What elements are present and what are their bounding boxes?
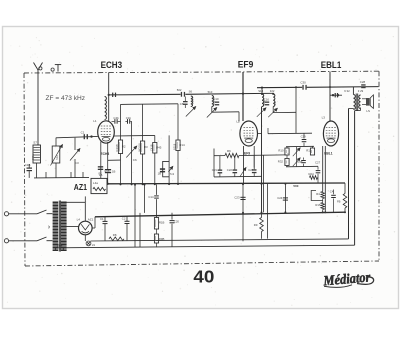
svg-text:B41: B41 xyxy=(262,99,266,104)
svg-text:R9B: R9B xyxy=(159,237,165,241)
capacitor C35 xyxy=(303,158,305,160)
capacitor C16 xyxy=(265,102,270,103)
output transformer primary xyxy=(353,95,355,110)
AZ1 cathode wire xyxy=(92,227,95,229)
svg-text:R10: R10 xyxy=(278,149,284,153)
svg-text:ECH3: ECH3 xyxy=(101,60,123,70)
wire S13 top to plate rail xyxy=(261,88,263,94)
svg-text:C29: C29 xyxy=(301,134,307,138)
core arrow 322 xyxy=(268,108,277,117)
svg-text:C21: C21 xyxy=(212,168,218,172)
wire ground rail left xyxy=(34,176,89,179)
svg-text:BE1N: BE1N xyxy=(191,97,195,104)
svg-text:R18: R18 xyxy=(105,169,110,173)
capacitor C1 series xyxy=(84,134,85,139)
svg-text:C24: C24 xyxy=(248,168,254,172)
svg-text:C14: C14 xyxy=(148,195,154,199)
Mediator logo xyxy=(322,270,372,289)
svg-text:L3: L3 xyxy=(322,116,326,120)
svg-text:1B: 1B xyxy=(158,172,161,176)
return wire right B xyxy=(354,111,356,246)
column x267 xyxy=(267,184,269,239)
power transformer core xyxy=(58,201,60,252)
resistor R10 xyxy=(286,147,288,148)
svg-text:C1b: C1b xyxy=(126,116,132,120)
power transformer primary winding xyxy=(53,202,59,252)
capacitor C22 xyxy=(234,156,236,170)
wire AVC drop xyxy=(295,87,297,133)
power transformer secondary winding xyxy=(61,202,67,252)
svg-text:C1: C1 xyxy=(81,130,85,134)
wire AZ1 to lamp xyxy=(84,235,86,241)
wire EF9 right lead xyxy=(253,146,255,168)
capacitor C4 cathode xyxy=(333,190,335,195)
capacitor C18 under tube xyxy=(100,142,102,185)
small series cap near coil xyxy=(112,93,113,97)
svg-text:C35: C35 xyxy=(297,160,303,164)
svg-text:EF9: EF9 xyxy=(244,151,250,155)
network rail bottom xyxy=(286,165,318,168)
svg-text:LS: LS xyxy=(366,109,370,113)
column x144 xyxy=(144,185,146,213)
svg-text:502: 502 xyxy=(177,88,182,92)
chassis dash-dot border left xyxy=(24,73,25,266)
svg-text:C4b: C4b xyxy=(113,116,119,120)
output transformer core xyxy=(355,94,357,111)
IF coil S10 xyxy=(212,96,214,107)
svg-text:(C208): (C208) xyxy=(115,144,119,152)
svg-text:C20: C20 xyxy=(174,220,180,224)
IF coil S13 xyxy=(262,94,264,107)
svg-text:AZ1: AZ1 xyxy=(74,183,88,192)
wire cathode R6 xyxy=(243,146,245,184)
svg-text:R4: R4 xyxy=(316,192,320,196)
oscillator coil L1 xyxy=(105,97,107,120)
grid rail y133 xyxy=(268,132,312,135)
tube ECH3 xyxy=(98,121,115,143)
svg-text:L4a: L4a xyxy=(93,181,98,185)
column x135 xyxy=(134,185,136,248)
switch upper xyxy=(37,210,47,214)
svg-text:R45: R45 xyxy=(156,146,162,150)
coil S7 xyxy=(33,145,41,163)
wire EBL1 plate from border xyxy=(329,72,331,88)
svg-text:L2: L2 xyxy=(236,120,240,124)
bracket cathode xyxy=(311,191,322,201)
capacitor C14 xyxy=(154,195,159,197)
column C24b xyxy=(284,184,286,213)
svg-text:C1: C1 xyxy=(100,217,104,221)
earth terminal xyxy=(51,68,54,71)
wire EBL1 plate to transformer xyxy=(330,94,342,96)
wire from border to coil xyxy=(108,72,110,95)
svg-text:C41B: C41B xyxy=(150,144,154,151)
column R45 xyxy=(154,136,156,143)
ground bus y212 xyxy=(95,212,345,217)
column R14 xyxy=(177,104,179,140)
variable arrows network xyxy=(296,147,298,167)
capacitor C10 xyxy=(215,102,220,103)
svg-text:C2: C2 xyxy=(122,217,126,221)
return wire right A xyxy=(348,109,350,239)
svg-text:C6: C6 xyxy=(133,158,137,162)
speaker xyxy=(366,98,370,106)
capacitor C1b xyxy=(127,119,129,124)
svg-text:L4: L4 xyxy=(77,217,81,221)
capacitor C4b xyxy=(114,119,116,124)
chassis dash-dot border right xyxy=(378,71,380,261)
core arrow S13 xyxy=(257,108,266,117)
svg-text:R9: R9 xyxy=(254,223,258,227)
svg-text:B2: B2 xyxy=(273,101,277,105)
tuning coil S1A with arrow xyxy=(52,146,60,163)
wire y135 ECH3 xyxy=(114,134,155,137)
screen feed vertical double xyxy=(261,107,263,213)
core arrow S6 xyxy=(186,107,196,117)
B+ bus y183 xyxy=(107,182,345,185)
svg-text:E84: E84 xyxy=(57,243,62,247)
paper speckle xyxy=(132,70,133,71)
mains terminal lower xyxy=(4,239,8,243)
svg-text:C3: C3 xyxy=(75,161,79,165)
filter capacitor C2 xyxy=(126,216,128,221)
network rail top xyxy=(286,145,314,147)
tube AZ1 xyxy=(79,221,93,235)
wire plate EF9 xyxy=(257,133,262,135)
svg-text:R15: R15 xyxy=(315,203,321,207)
junction grid xyxy=(90,135,92,137)
wire top cap EF9 xyxy=(242,72,244,121)
capacitor C8 xyxy=(183,101,188,102)
IF coil S6 xyxy=(191,96,193,107)
transformer tap HV xyxy=(66,201,86,203)
cap row wire xyxy=(214,175,262,178)
dial lamp L9 xyxy=(86,241,91,246)
mains wire upper xyxy=(9,213,37,215)
core arrow S10 xyxy=(207,108,217,118)
wire return primary xyxy=(349,108,354,110)
wire antenna down xyxy=(37,70,39,145)
svg-text:6 32: 6 32 xyxy=(344,89,350,93)
svg-text:510: 510 xyxy=(208,90,213,94)
zigzag R8 xyxy=(109,237,124,241)
column R3 xyxy=(142,104,144,141)
transformer tap filament xyxy=(66,226,79,228)
capacitor C27 xyxy=(317,166,319,169)
svg-text:B41L: B41L xyxy=(31,153,35,160)
EBL1 cathode double wires xyxy=(322,146,324,192)
svg-text:S7: S7 xyxy=(33,141,37,145)
svg-text:R8: R8 xyxy=(113,233,117,237)
series capacitor 502 xyxy=(181,92,182,97)
plate rail y87 xyxy=(257,86,302,88)
svg-text:C27: C27 xyxy=(315,160,321,164)
svg-text:FB: FB xyxy=(337,199,341,203)
svg-text:322: 322 xyxy=(270,89,275,93)
column x345 squiggle xyxy=(344,183,346,193)
svg-text:EF9: EF9 xyxy=(238,60,254,70)
mains terminal upper xyxy=(4,212,8,216)
svg-text:R2: R2 xyxy=(122,145,126,149)
svg-text:R14: R14 xyxy=(179,143,185,147)
wire cathode hook xyxy=(108,159,121,161)
svg-text:C4: C4 xyxy=(330,190,334,194)
AVC rail y95 xyxy=(109,93,181,96)
wire coil to EF9 grid xyxy=(211,107,213,113)
squiggle R4 xyxy=(321,192,325,199)
cluster R7 C2 loop xyxy=(163,161,169,176)
heater line A xyxy=(91,239,349,241)
output transformer secondary xyxy=(359,95,361,109)
switch lower xyxy=(37,237,47,241)
svg-text:ZF = 473 kHz: ZF = 473 kHz xyxy=(46,95,86,102)
svg-text:(W31R): (W31R) xyxy=(137,143,141,152)
svg-text:R2: R2 xyxy=(99,171,103,175)
squiggle R9 feed xyxy=(261,213,263,218)
column C23 xyxy=(242,184,244,213)
transformer bottom leads xyxy=(55,248,57,251)
AZ1 plate wire xyxy=(84,196,86,202)
svg-text:C28: C28 xyxy=(360,80,366,84)
svg-text:AZ1: AZ1 xyxy=(88,217,94,221)
column C6 variable xyxy=(131,121,133,184)
svg-text:S6: S6 xyxy=(189,90,193,94)
heater line B xyxy=(57,245,355,248)
resistor R9B xyxy=(156,229,158,234)
svg-text:R3: R3 xyxy=(144,145,148,149)
svg-text:W: W xyxy=(47,226,51,229)
svg-text:R24: R24 xyxy=(309,172,315,176)
variable capacitor C3 xyxy=(70,149,80,161)
wire grid ECH3 xyxy=(56,136,98,137)
R6 zigzag xyxy=(214,155,225,157)
svg-text:7c2: 7c2 xyxy=(170,172,175,176)
svg-text:R1B: R1B xyxy=(159,220,165,224)
svg-text:C23: C23 xyxy=(234,196,240,200)
filter capacitor C1 xyxy=(104,217,106,221)
column x140 xyxy=(139,213,141,247)
variable arrow xyxy=(240,168,246,177)
mains wire lower xyxy=(9,240,37,242)
resistor R1B xyxy=(154,218,158,230)
resistor R11 xyxy=(312,146,314,148)
svg-text:C22: C22 xyxy=(227,168,233,172)
svg-text:3 29: 3 29 xyxy=(358,89,364,93)
column R2 xyxy=(120,104,122,140)
chassis dash-dot border bottom xyxy=(25,261,379,266)
IF coil 322 xyxy=(273,94,275,107)
svg-text:C24: C24 xyxy=(277,196,283,200)
cathode column xyxy=(213,149,215,177)
stub drops left rail xyxy=(45,172,47,178)
series capacitor C30 xyxy=(302,85,303,90)
antenna symbol xyxy=(34,63,43,71)
tube EF9 xyxy=(240,121,258,146)
choke box L4a xyxy=(91,178,107,193)
zigzag R24 xyxy=(310,176,318,180)
screen rail y104 xyxy=(121,103,179,106)
wire sec bottom to bus xyxy=(359,108,361,111)
capacitor C24 xyxy=(253,155,255,169)
svg-text:1B: 1B xyxy=(112,169,116,173)
tube EBL1 xyxy=(323,121,338,146)
capacitor C21 xyxy=(219,156,221,170)
svg-text:40: 40 xyxy=(193,266,214,286)
svg-text:C30: C30 xyxy=(300,81,306,85)
svg-text:L9: L9 xyxy=(92,243,96,247)
capacitor C20 xyxy=(171,213,173,220)
svg-text:EBL1: EBL1 xyxy=(321,60,342,70)
svg-text:C8: C8 xyxy=(180,102,184,106)
chassis dash-dot border top xyxy=(24,71,379,73)
svg-text:L1: L1 xyxy=(93,119,97,123)
capacitor C28 xyxy=(361,84,365,85)
capacitor C29 xyxy=(303,133,305,138)
svg-text:R32: R32 xyxy=(278,159,284,163)
wire coil to diode rail xyxy=(272,107,274,113)
junction dots bus xyxy=(120,183,122,185)
svg-text:R11: R11 xyxy=(306,149,311,153)
svg-text:S1A: S1A xyxy=(55,155,59,160)
svg-text:R318: R318 xyxy=(173,143,177,150)
svg-text:BE1N: BE1N xyxy=(212,97,216,104)
squiggle R15 xyxy=(321,203,325,210)
svg-text:S13: S13 xyxy=(258,89,263,93)
column x169 xyxy=(168,135,170,184)
svg-text:500: 500 xyxy=(293,184,298,188)
junction dots buses xyxy=(134,184,136,186)
resistor R32 xyxy=(285,159,289,166)
svg-text:R6: R6 xyxy=(227,149,231,153)
